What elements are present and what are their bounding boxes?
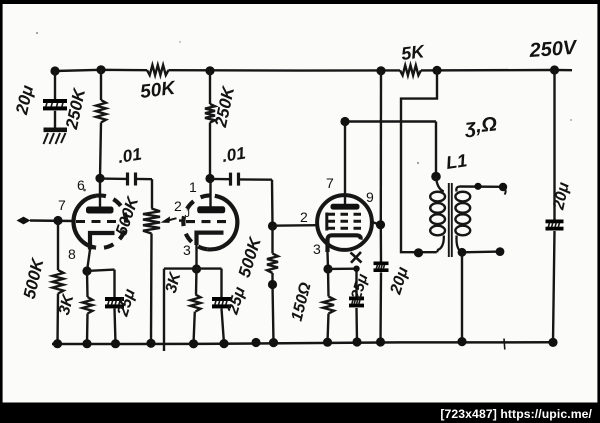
bus node pot bottom [146, 339, 155, 348]
tube V1 grid [76, 220, 122, 223]
pin 2 V3 label [300, 209, 308, 225]
node 500K grid3 bottom [268, 280, 277, 289]
wire 250K-1 [100, 70, 101, 179]
node secondary top mid [474, 183, 481, 190]
wire cathode bypass [328, 269, 357, 342]
pin 7 label [58, 197, 66, 213]
transformer L1 primary [430, 177, 445, 253]
label 3 ohm [463, 113, 498, 138]
wire cathode box2 [164, 269, 224, 351]
wire V3 grid [273, 224, 318, 227]
tube V2 grid [186, 220, 231, 223]
wire ground bus [52, 342, 553, 344]
label 3K-2 [163, 270, 185, 295]
capacitor 25u-3 [349, 297, 364, 308]
resistor 500K grid1 wire [56, 221, 59, 344]
label 20u input [12, 83, 37, 117]
wire V2 cathode [195, 245, 197, 269]
pin 7 V3 label [326, 175, 334, 191]
bus node 500K grid3 bottom [269, 338, 278, 347]
wire V3 plate riser [345, 122, 436, 205]
pot wiper arrow [161, 216, 185, 223]
tube V2 envelope [183, 195, 237, 249]
resistor 500K grid1 [53, 270, 64, 294]
transformer core [449, 183, 452, 257]
node screen [376, 220, 385, 229]
pin 9 V3 label [366, 189, 374, 205]
resistor 5K [400, 65, 421, 75]
capacitor 20u input [43, 99, 67, 110]
label 250K-2 [211, 83, 239, 129]
node secondary bottom [458, 248, 467, 257]
label 500K grid1 [20, 255, 48, 301]
junction top-left [50, 66, 59, 75]
capacitor 20u screen [374, 262, 389, 273]
resistor 150R [323, 297, 334, 314]
node V2 cathode [192, 264, 201, 273]
node bypass small [353, 266, 359, 272]
wire V3 cathode [326, 252, 329, 269]
svg-text:5K: 5K [400, 41, 427, 64]
svg-text:50K: 50K [139, 78, 177, 103]
junction 250V line [550, 65, 559, 74]
capacitor .01-2 [210, 173, 272, 186]
label L1 [445, 150, 469, 173]
tube V1 envelope [74, 195, 127, 248]
svg-text:8: 8 [68, 246, 76, 262]
wire cap2 drop [271, 180, 274, 226]
svg-text:7: 7 [58, 197, 66, 213]
label 150R [289, 280, 315, 323]
potentiometer 500K wire [151, 179, 152, 343]
svg-text:[723x487] https://upic.me/: [723x487] https://upic.me/ [440, 407, 592, 421]
wire B+ to primary [401, 70, 437, 252]
label 25u-1 [114, 287, 139, 320]
label 25u-2 [224, 285, 249, 318]
transformer L1 secondary [455, 187, 470, 253]
x mark [351, 252, 362, 263]
tube V2 cathode [197, 233, 224, 245]
svg-text:3: 3 [183, 242, 191, 258]
svg-text:.01: .01 [117, 144, 143, 166]
wire 250K-2 [209, 71, 211, 179]
resistor 3K-2 [191, 295, 201, 312]
junction 5K right [432, 66, 441, 75]
svg-text:.01: .01 [221, 143, 247, 165]
resistor 500K grid3 wire [273, 226, 274, 343]
tube V3 plate [331, 204, 360, 210]
watermark bar [0, 403, 600, 423]
pin 3 label [183, 242, 191, 258]
label 250K-1 [62, 85, 90, 131]
wire to 25u-1 [87, 270, 116, 344]
wire screen line [372, 71, 381, 342]
svg-text:J: J [185, 208, 191, 220]
pin 2 hook [185, 208, 191, 220]
bus tick [503, 339, 506, 350]
svg-text:ʒ,Ω: ʒ,Ω [463, 113, 498, 138]
node grid1 [53, 216, 62, 225]
bus node 25u-3 bottom [352, 337, 361, 346]
resistor 3K-1 wire [86, 271, 89, 344]
terminal secondary bottom [496, 247, 505, 256]
bus node 500K grid1 bottom [53, 339, 62, 348]
pin 8 label [68, 246, 76, 262]
capacitor 20u right [546, 220, 564, 231]
resistor 150R wire [328, 269, 329, 342]
svg-text:3: 3 [313, 241, 321, 257]
junction 250K-2 top [205, 66, 214, 75]
junction 250K-1 top [96, 65, 105, 74]
wire 250V drop [553, 70, 555, 342]
wire 20u cap drop [54, 71, 56, 128]
resistor 250K-2 [205, 104, 215, 123]
tube V3 grid cage [327, 213, 364, 231]
svg-text:2: 2 [300, 209, 308, 225]
resistor 250K-1 [96, 100, 106, 123]
terminal secondary top [499, 183, 507, 195]
label 20u right [550, 181, 573, 213]
tube V3 cathode [328, 235, 361, 252]
node V3 plate corner [340, 117, 349, 126]
svg-text:250V: 250V [528, 37, 579, 62]
wire top B+ rail [55, 70, 572, 71]
tube V3 envelope [317, 195, 372, 250]
bus node 150R bottom [323, 338, 332, 347]
potentiometer 500K [143, 209, 160, 234]
wire secondary top [460, 185, 504, 188]
node primary bottom [414, 248, 423, 257]
bus node 3K-1 bottom [82, 339, 91, 348]
label .01-2 [221, 143, 247, 165]
node primary top [431, 172, 441, 182]
svg-text:1: 1 [189, 179, 197, 195]
label 500K pot [112, 194, 142, 238]
capacitor 25u-1 [105, 297, 124, 308]
svg-text:L1: L1 [445, 150, 469, 173]
svg-text:7: 7 [326, 175, 334, 191]
node V2 plate [205, 174, 214, 183]
tube V1 plate [86, 178, 114, 213]
label 250V [528, 37, 579, 62]
wire V1 cathode [87, 250, 90, 272]
svg-text:2: 2 [174, 198, 182, 214]
node V1 plate [95, 174, 104, 183]
label 25u-3 [348, 272, 372, 303]
bus node stray [251, 338, 260, 347]
label 3K-1 [56, 292, 78, 317]
label 5K [400, 41, 427, 64]
tube V1 cathode [90, 233, 115, 250]
pin 1 label [189, 179, 197, 195]
svg-text:9: 9 [366, 189, 374, 205]
resistor 500K grid3 [267, 254, 278, 274]
scan specks [36, 32, 572, 191]
label 500K grid3 [235, 234, 266, 280]
capacitor .01-1 [100, 173, 152, 186]
label .01-1 [117, 144, 143, 166]
label 50K [139, 78, 177, 103]
capacitor 25u-2 [212, 297, 231, 308]
bus node 25u-1 bottom [111, 339, 120, 348]
bus node 25u-2 bottom [219, 339, 228, 348]
node V1 cathode [82, 266, 91, 275]
wire secondary ground [461, 252, 463, 341]
bus node screen cap bottom [376, 337, 385, 346]
resistor 3K-1 [83, 297, 93, 314]
pin 2 label [174, 198, 182, 214]
pin 6 label [77, 177, 85, 193]
tube V2 plate [197, 179, 225, 214]
bus node 3K-2 bottom [189, 339, 198, 348]
junction screen line top [376, 66, 385, 75]
resistor 50K [147, 65, 169, 75]
bus node bus right end [548, 338, 557, 347]
node V3 cathode [323, 264, 332, 273]
ground [44, 128, 68, 145]
bus node secondary ground [457, 337, 466, 346]
pin 3 V3 label [313, 241, 321, 257]
node V3 grid [268, 221, 277, 230]
wire secondary bottom [462, 250, 500, 253]
input terminal [17, 217, 74, 225]
resistor 3K-2 wire [194, 269, 197, 344]
label 20u screen [387, 265, 412, 298]
